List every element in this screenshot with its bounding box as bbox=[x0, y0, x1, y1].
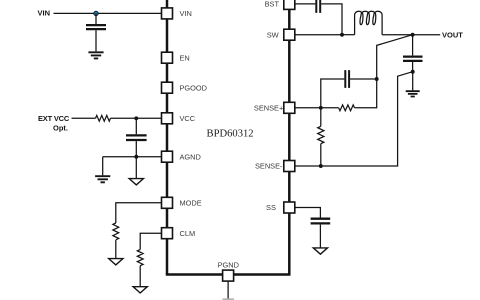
node SENSE+ junction bbox=[319, 106, 323, 110]
node feedback top junction bbox=[375, 77, 379, 81]
IC U1 body right edge bbox=[288, 0, 291, 275]
wire AGND rail to earth ground bbox=[102, 157, 104, 176]
wire junction to C2 bbox=[135, 118, 137, 134]
wire R3 to ground bbox=[139, 266, 141, 287]
pin CLM bbox=[162, 228, 173, 239]
wire R1 to pin VCC bbox=[111, 117, 162, 119]
resistor R1 (EXT VCC series) bbox=[96, 115, 111, 121]
node VIN junction (blue) bbox=[94, 11, 98, 15]
IC U1 body bottom edge bbox=[166, 273, 291, 276]
wire feedback node down to R4 bbox=[355, 79, 377, 108]
pin VIN bbox=[162, 8, 173, 19]
wire R4 to SENSE+ node bbox=[321, 107, 339, 109]
svg-text:SW: SW bbox=[267, 30, 279, 39]
ground (triangle) at SS cap bbox=[313, 248, 327, 254]
svg-text:CLM: CLM bbox=[180, 229, 196, 238]
pin SENSE- bbox=[284, 161, 295, 172]
wire feedback node to C5 bbox=[350, 78, 377, 80]
wire VOUT node to C4 bbox=[412, 35, 414, 56]
svg-text:VOUT: VOUT bbox=[442, 30, 463, 39]
ground (earth) under C4 bbox=[406, 91, 420, 96]
ground (earth, cut off) under PGND bbox=[223, 298, 235, 300]
wire C2 to AGND rail bbox=[135, 141, 137, 157]
svg-text:PGOOD: PGOOD bbox=[180, 83, 208, 92]
pin BST bbox=[284, 0, 295, 9]
pin SS bbox=[284, 202, 295, 213]
pin PGOOD bbox=[162, 82, 173, 93]
svg-text:MODE: MODE bbox=[180, 199, 202, 208]
wire C4 to ground node bbox=[412, 62, 414, 72]
wire SS pin to C6 bbox=[295, 208, 321, 218]
node SW junction bbox=[340, 33, 344, 37]
svg-text:SENSE+: SENSE+ bbox=[254, 104, 283, 113]
wire MODE pin to R2 bbox=[116, 203, 162, 223]
pin PGND bbox=[223, 270, 234, 281]
pin VCC bbox=[162, 113, 173, 124]
wire SW pin to node bbox=[295, 34, 343, 36]
inductor L1 bbox=[355, 11, 382, 34]
wire PGND pin to ground bbox=[227, 281, 229, 299]
wire junction to earth ground bbox=[412, 72, 414, 91]
wire L1 to VOUT node bbox=[382, 34, 440, 36]
svg-text:EN: EN bbox=[180, 53, 190, 62]
ground (triangle) at AGND bbox=[129, 179, 143, 185]
wire C3 to SW node bbox=[321, 4, 342, 35]
pin AGND bbox=[162, 151, 173, 162]
node C4/SENSE- junction bbox=[411, 70, 415, 74]
wire R5 to SENSE- node bbox=[320, 144, 322, 166]
wire junction to C1 bbox=[95, 13, 97, 24]
resistor R4 (feedback top) bbox=[339, 105, 355, 111]
svg-text:VCC: VCC bbox=[180, 114, 196, 123]
capacitor C4 (output) bbox=[403, 57, 423, 61]
svg-text:AGND: AGND bbox=[180, 152, 201, 161]
pin EN bbox=[162, 52, 173, 63]
svg-text:VIN: VIN bbox=[38, 9, 51, 18]
svg-text:PGND: PGND bbox=[218, 261, 239, 270]
svg-text:Opt.: Opt. bbox=[53, 124, 68, 133]
ground (earth) under C1 bbox=[88, 52, 103, 58]
svg-text:VIN: VIN bbox=[180, 9, 192, 18]
svg-text:BPD60312: BPD60312 bbox=[207, 129, 254, 140]
wire C5 to SENSE+ node bbox=[321, 79, 345, 108]
wire C1 to ground bbox=[95, 30, 97, 51]
capacitor C3 (bootstrap) bbox=[316, 0, 320, 13]
IC U1 BPD60312 body left edge bbox=[166, 0, 169, 275]
wire VIN to pin VIN bbox=[54, 12, 162, 14]
svg-text:SENSE-: SENSE- bbox=[255, 162, 283, 171]
pin MODE bbox=[162, 197, 173, 208]
wire C6 to ground bbox=[319, 225, 321, 248]
resistor R3 (CLM) bbox=[137, 250, 143, 266]
node AGND junction bbox=[134, 155, 138, 159]
ground (triangle) at CLM bbox=[133, 287, 147, 293]
pin SENSE+ bbox=[284, 102, 295, 113]
wire BST pin to C3 bbox=[295, 3, 316, 5]
node VOUT junction bbox=[411, 33, 415, 37]
capacitor C5 (feedforward) bbox=[345, 70, 349, 88]
wire VOUT node diagonal to feedback node bbox=[377, 35, 413, 79]
wire CLM pin to R3 bbox=[140, 233, 162, 249]
ground (earth) at AGND bbox=[95, 176, 110, 182]
wire R2 to ground bbox=[115, 240, 117, 259]
wire EXT VCC to R1 bbox=[72, 117, 96, 119]
wire SENSE- node to output ground node bbox=[321, 72, 413, 166]
wire SENSE- pin to node bbox=[295, 165, 321, 167]
node SENSE- junction bbox=[319, 164, 323, 168]
wire AGND rail bbox=[103, 156, 162, 158]
ground (triangle) at MODE bbox=[109, 259, 123, 265]
svg-text:SS: SS bbox=[266, 203, 276, 212]
pin SW bbox=[284, 29, 295, 40]
wire SENSE+ node to R5 bbox=[320, 108, 322, 127]
wire AGND junction to triangle ground bbox=[135, 157, 137, 179]
capacitor C2 (VCC bypass) bbox=[126, 135, 147, 140]
resistor R2 (MODE) bbox=[113, 223, 119, 240]
capacitor C1 (input bypass) bbox=[86, 25, 106, 29]
svg-text:EXT VCC: EXT VCC bbox=[38, 114, 70, 123]
resistor R5 (sense divider) bbox=[318, 126, 324, 143]
capacitor C6 (soft start) bbox=[311, 219, 331, 224]
wire SENSE+ pin to node bbox=[295, 107, 321, 109]
wire SW node to L1 bbox=[342, 34, 355, 36]
svg-text:BST: BST bbox=[265, 0, 280, 8]
node VCC junction bbox=[134, 116, 138, 120]
